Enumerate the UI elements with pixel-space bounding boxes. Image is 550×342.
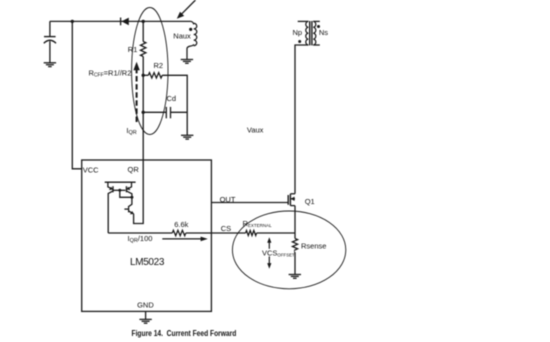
svg-text:CS: CS [221,224,231,233]
svg-text:Np: Np [293,28,303,37]
svg-text:RCFF=R1//R2: RCFF=R1//R2 [89,69,132,79]
svg-text:IQR: IQR [126,126,136,136]
svg-text:QR: QR [128,165,140,174]
svg-text:LM5023: LM5023 [130,257,165,268]
svg-text:Ns: Ns [319,28,328,37]
svg-text:R2: R2 [154,61,164,70]
svg-text:GND: GND [137,300,154,309]
svg-text:VCC: VCC [83,166,99,175]
svg-text:Q1: Q1 [305,197,315,206]
svg-text:6.6k: 6.6k [174,220,188,229]
svg-text:Vaux: Vaux [247,126,264,135]
svg-text:REXTERNAL: REXTERNAL [243,219,273,228]
svg-text:Naux: Naux [173,32,191,41]
svg-text:OUT: OUT [220,195,236,204]
svg-text:IQR/100: IQR/100 [128,234,153,244]
svg-text:Figure 14. Current Feed Forwa: Figure 14. Current Feed Forward [132,329,237,338]
svg-text:R1: R1 [128,45,138,54]
svg-text:Rsense: Rsense [301,241,326,250]
svg-text:Cd: Cd [167,94,177,103]
